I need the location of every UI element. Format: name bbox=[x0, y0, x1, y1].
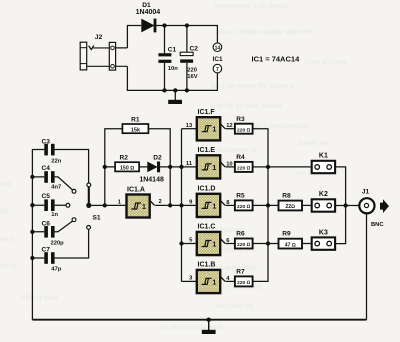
svg-text:mile d weil: mile d weil bbox=[20, 293, 58, 302]
junction dot ground bbox=[207, 318, 211, 322]
svg-text:J2: J2 bbox=[95, 34, 103, 41]
wire R8 to K2 bbox=[302, 204, 312, 206]
inverter gate IC1.D bbox=[189, 186, 235, 218]
svg-text:11: 11 bbox=[186, 161, 193, 167]
wire J1 to bottom rail bbox=[366, 214, 368, 320]
wire R9 to K3 bbox=[302, 243, 312, 245]
svg-text:13: 13 bbox=[186, 123, 193, 129]
ground (bottom) bbox=[202, 320, 216, 334]
svg-text:1: 1 bbox=[212, 241, 216, 248]
inverter gate IC1.F bbox=[186, 109, 235, 140]
svg-text:150 Ω: 150 Ω bbox=[120, 166, 134, 172]
wire top rail right segment bbox=[155, 26, 218, 44]
wire D2 row to pin 11 bbox=[170, 166, 197, 168]
wire K3 to output node bbox=[335, 206, 346, 244]
svg-text:1: 1 bbox=[212, 127, 216, 134]
junction pin 5 row bbox=[179, 241, 183, 245]
svg-text:R7: R7 bbox=[236, 269, 245, 276]
junction C2 bottom bbox=[185, 88, 189, 92]
wire input rail bbox=[105, 129, 123, 206]
capacitor C2 (electrolytic) bbox=[180, 45, 198, 80]
svg-text:1: 1 bbox=[142, 204, 146, 211]
resistor R6 bbox=[235, 231, 253, 249]
diode D2 bbox=[139, 154, 164, 183]
wire C6 row bbox=[32, 221, 72, 232]
wire C7 row bbox=[32, 229, 88, 258]
junction IC1.A output node bbox=[168, 203, 172, 207]
capacitor C4 bbox=[42, 165, 62, 191]
inverter gate IC1.E bbox=[186, 147, 235, 179]
svg-text:hil: hil bbox=[0, 207, 9, 216]
wire bottom power rail bbox=[127, 66, 217, 90]
wire to pin 3 bbox=[182, 280, 197, 282]
svg-text:IC1 = 74AC14: IC1 = 74AC14 bbox=[252, 54, 301, 63]
svg-text:S1: S1 bbox=[93, 214, 101, 221]
svg-text:R5: R5 bbox=[236, 193, 245, 200]
svg-text:C7: C7 bbox=[42, 246, 51, 253]
svg-text:1: 1 bbox=[212, 203, 216, 210]
svg-text:220p: 220p bbox=[51, 240, 65, 246]
wire IC1.A input bbox=[105, 204, 127, 206]
junction C4 left bbox=[30, 175, 34, 179]
wire C5 row bbox=[32, 204, 66, 206]
svg-text:K1: K1 bbox=[319, 153, 328, 160]
inverter gate IC1.B bbox=[189, 262, 235, 294]
ground (power section) bbox=[168, 90, 182, 104]
wire C3 to S1 top contact bbox=[55, 150, 89, 184]
wire R2 row bbox=[105, 166, 170, 168]
svg-text:C3: C3 bbox=[42, 138, 51, 145]
svg-text:2: 2 bbox=[159, 199, 162, 205]
svg-text:nb l: nb l bbox=[0, 235, 13, 244]
junction IC1.A input node bbox=[103, 203, 107, 207]
svg-text:22n: 22n bbox=[51, 159, 61, 165]
wire C4 row bbox=[32, 177, 72, 190]
junction C1 bottom bbox=[162, 88, 166, 92]
junction C5 left bbox=[30, 203, 34, 207]
wire to pin 5 bbox=[182, 243, 197, 245]
rotary switch S1 bbox=[66, 183, 101, 229]
junction D2 output node bbox=[168, 165, 172, 169]
resistor R8 bbox=[279, 193, 303, 211]
svg-text:7: 7 bbox=[216, 67, 219, 73]
socket J1 (BNC) bbox=[359, 189, 384, 228]
resistor R4 bbox=[235, 154, 253, 172]
arrow output bbox=[380, 199, 389, 213]
svg-text:IC1.F: IC1.F bbox=[198, 109, 216, 116]
resistor R5 bbox=[235, 193, 253, 211]
svg-text:220 Ω: 220 Ω bbox=[237, 127, 251, 133]
svg-text:sed ile 25 saq sellsv: sed ile 25 saq sellsv bbox=[210, 101, 283, 110]
junction ground stub bbox=[173, 88, 177, 92]
svg-text:do b: do b bbox=[0, 261, 16, 270]
wire rail to K1 bbox=[268, 166, 312, 168]
wire left rail bbox=[32, 150, 44, 320]
wire node to J1 bbox=[346, 205, 365, 207]
svg-text:10n: 10n bbox=[168, 66, 178, 72]
svg-text:R9: R9 bbox=[282, 231, 291, 238]
svg-text:IC1.D: IC1.D bbox=[198, 186, 216, 193]
svg-text:K3: K3 bbox=[319, 229, 328, 236]
svg-text:D1: D1 bbox=[142, 2, 151, 9]
svg-text:1N4148: 1N4148 bbox=[139, 176, 164, 183]
capacitor C7 bbox=[42, 246, 62, 272]
svg-text:47p: 47p bbox=[51, 267, 61, 273]
svg-text:tnemucod a ni denia: tnemucod a ni denia bbox=[215, 1, 288, 10]
svg-text:C6: C6 bbox=[42, 220, 51, 227]
wire C1 branch bbox=[164, 26, 166, 91]
svg-text:220: 220 bbox=[187, 68, 197, 74]
wire R1 out to feedback rail bbox=[149, 129, 171, 206]
svg-text:C2: C2 bbox=[190, 45, 199, 52]
svg-text:wb ilwel wl: wb ilwel wl bbox=[214, 301, 254, 310]
svg-text:IC1: IC1 bbox=[213, 56, 224, 63]
svg-text:15k: 15k bbox=[131, 128, 141, 134]
IC1 pin 7 bbox=[213, 64, 222, 73]
svg-text:ba e po eqno 55 aviso 1: ba e po eqno 55 aviso 1 bbox=[210, 81, 294, 90]
svg-text:4n7: 4n7 bbox=[51, 185, 61, 191]
svg-text:1: 1 bbox=[212, 165, 216, 172]
svg-text:16V: 16V bbox=[187, 74, 197, 80]
svg-text:14: 14 bbox=[215, 45, 221, 51]
wire K2 to output node bbox=[335, 205, 346, 207]
svg-text:R6: R6 bbox=[236, 231, 245, 238]
svg-text:C1: C1 bbox=[168, 46, 177, 53]
resistor R9 bbox=[279, 231, 303, 249]
wire rail to R8 bbox=[268, 204, 279, 206]
capacitor C6 bbox=[42, 220, 65, 246]
resistor R1 bbox=[122, 116, 148, 133]
junction pin 11 row bbox=[179, 165, 183, 169]
svg-text:iues d llsoq: iues d llsoq bbox=[305, 57, 347, 66]
svg-text:220 Ω: 220 Ω bbox=[237, 166, 251, 172]
svg-text:IC1.C: IC1.C bbox=[198, 224, 216, 231]
connector J2 bbox=[80, 34, 127, 70]
junction C6 left bbox=[30, 230, 34, 234]
svg-text:R8: R8 bbox=[282, 193, 291, 200]
wire to pin 9 bbox=[182, 204, 197, 206]
svg-text:C4: C4 bbox=[42, 165, 51, 172]
junction sum rail R9 row bbox=[266, 241, 270, 245]
wire C2 branch bbox=[186, 26, 188, 91]
svg-text:1: 1 bbox=[212, 279, 216, 286]
junction sum rail K1 row bbox=[266, 165, 270, 169]
junction dot output node bbox=[343, 203, 347, 207]
wire bottom rail bbox=[32, 319, 366, 321]
capacitor C1 bbox=[158, 46, 178, 72]
connector K2 bbox=[312, 191, 335, 212]
svg-text:K2: K2 bbox=[319, 191, 328, 198]
wire K1 to output node bbox=[335, 167, 346, 206]
junction C1 top bbox=[162, 23, 166, 27]
svg-text:pou t obbooqaaqe ualisem: pou t obbooqaaqe ualisem bbox=[218, 27, 313, 36]
wire top rail left segment bbox=[127, 26, 141, 48]
wire R5 to rail bbox=[253, 204, 268, 206]
svg-text:220 Ω: 220 Ω bbox=[237, 204, 251, 210]
diode D1 bbox=[136, 2, 161, 32]
wire S1 pole to input rail bbox=[91, 204, 105, 206]
resistor R3 bbox=[235, 116, 253, 134]
svg-text:47 Ω: 47 Ω bbox=[285, 242, 296, 248]
wire IC1.A output to distribution rail bbox=[155, 204, 181, 206]
junction sum rail R8 row bbox=[266, 203, 270, 207]
junction R2 input node bbox=[103, 165, 107, 169]
svg-text:R3: R3 bbox=[236, 116, 245, 123]
svg-text:J1: J1 bbox=[362, 189, 370, 196]
svg-text:220 Ω: 220 Ω bbox=[237, 280, 251, 286]
svg-text:D2: D2 bbox=[153, 154, 162, 161]
connector K1 bbox=[312, 153, 335, 174]
svg-text:R4: R4 bbox=[236, 154, 245, 161]
resistor R2 bbox=[115, 155, 139, 172]
wire R4 to rail bbox=[253, 166, 268, 168]
wire rail to R9 bbox=[268, 243, 279, 245]
svg-text:1n: 1n bbox=[51, 212, 58, 218]
wire gate input distribution rail bbox=[181, 129, 183, 282]
inverter gate IC1.A bbox=[118, 187, 162, 218]
junction C7 left bbox=[30, 256, 34, 260]
svg-text:IC1.B: IC1.B bbox=[198, 262, 216, 269]
wire to pin 13 bbox=[182, 128, 197, 130]
IC1 pin 14 bbox=[213, 43, 222, 52]
svg-text:ilaldtl nb: ilaldtl nb bbox=[298, 139, 329, 148]
resistor R7 bbox=[235, 269, 253, 287]
junction C2 top bbox=[185, 23, 189, 27]
svg-text:R1: R1 bbox=[131, 116, 140, 123]
wire R6 to rail bbox=[253, 243, 268, 245]
svg-text:ulg: ulg bbox=[0, 179, 12, 188]
wire summing rail bbox=[253, 129, 268, 282]
svg-text:BNC: BNC bbox=[371, 222, 384, 228]
svg-text:C5: C5 bbox=[42, 193, 51, 200]
svg-text:220 Ω: 220 Ω bbox=[237, 242, 251, 248]
svg-text:R2: R2 bbox=[120, 155, 129, 162]
svg-text:22Ω: 22Ω bbox=[285, 204, 295, 210]
svg-text:IC1.A: IC1.A bbox=[127, 187, 145, 194]
inverter gate IC1.C bbox=[189, 224, 235, 255]
svg-text:e-debream si: e-debream si bbox=[210, 145, 256, 154]
capacitor C3 bbox=[42, 138, 62, 164]
connector K3 bbox=[312, 229, 335, 249]
svg-text:1N4004: 1N4004 bbox=[136, 9, 161, 16]
capacitor C5 bbox=[42, 193, 59, 218]
junction pin 9 row bbox=[179, 203, 183, 207]
svg-text:IC1.E: IC1.E bbox=[198, 147, 216, 154]
